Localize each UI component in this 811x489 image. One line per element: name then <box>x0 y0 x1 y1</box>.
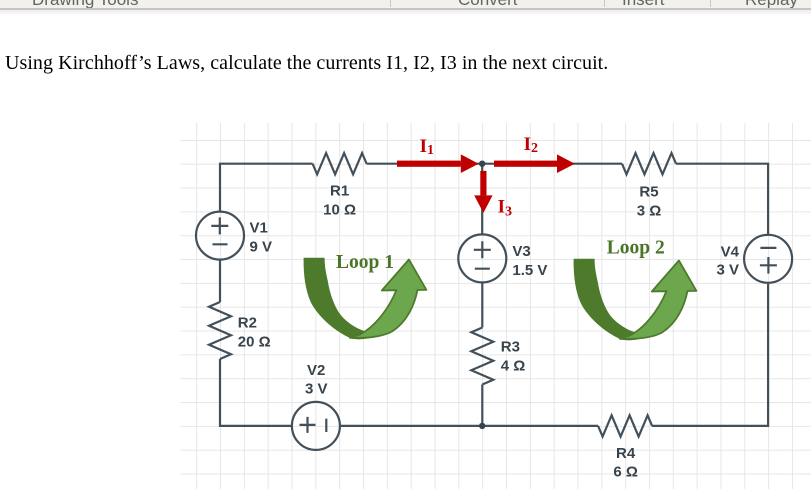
problem statement text <box>5 52 608 75</box>
svg-text:V4: V4 <box>721 244 740 261</box>
svg-text:R1: R1 <box>330 182 349 199</box>
svg-text:V1: V1 <box>250 219 268 236</box>
svg-text:10 Ω: 10 Ω <box>323 201 356 218</box>
wire R4 to V2 <box>340 425 598 427</box>
resistor R3 <box>471 328 493 385</box>
loop 1 arrow dark band <box>304 258 374 340</box>
current arrow I3 <box>474 171 492 213</box>
svg-text:R2: R2 <box>238 315 257 332</box>
svg-text:3 V: 3 V <box>305 381 328 398</box>
loop 1 arrow light band and head <box>350 260 426 338</box>
wire R3 to bottom node <box>481 385 483 426</box>
svg-text:R4: R4 <box>616 445 636 462</box>
resistor R4 <box>598 415 652 436</box>
svg-text:V2: V2 <box>307 362 325 379</box>
svg-text:3 V: 3 V <box>716 262 739 279</box>
svg-text:3 Ω: 3 Ω <box>637 202 662 219</box>
source V3 <box>458 234 506 282</box>
wire top-left: V1 top to R1 left <box>220 164 313 212</box>
wire middle node down to V3 <box>481 164 483 235</box>
svg-text:6 Ω: 6 Ω <box>613 464 638 481</box>
wire V2 to bottom-left corner up to R2 <box>220 359 292 426</box>
svg-text:4 Ω: 4 Ω <box>501 357 526 374</box>
grid canvas <box>181 123 811 489</box>
svg-text:9 V: 9 V <box>250 238 273 255</box>
svg-text:20 Ω: 20 Ω <box>238 334 271 351</box>
svg-text:1.5 V: 1.5 V <box>512 262 547 279</box>
svg-text:V3: V3 <box>512 243 530 260</box>
node junction bottom <box>479 423 485 429</box>
wire R1 to R5 through node <box>367 163 622 165</box>
loop 2 arrow light band and head <box>620 261 696 339</box>
source V2 <box>292 402 340 450</box>
svg-text:R5: R5 <box>639 184 658 201</box>
svg-text:R3: R3 <box>501 339 520 356</box>
source V4 <box>744 235 792 283</box>
current arrow I2 <box>494 154 575 173</box>
wire top-right corner down to V4 <box>676 164 768 236</box>
svg-text:Loop 1: Loop 1 <box>336 252 394 273</box>
resistor R1 <box>313 153 367 174</box>
wire V3 to R3 <box>481 283 483 328</box>
resistor R2 <box>209 302 231 359</box>
loop 2 arrow dark band <box>574 259 644 341</box>
wire V4 down to bottom-right corner to R4 <box>652 284 768 426</box>
svg-text:Loop 2: Loop 2 <box>607 238 665 259</box>
source V1 <box>196 212 244 260</box>
resistor R5 <box>622 153 676 174</box>
wire R2 to V1 <box>219 260 221 302</box>
current arrow I1 <box>397 154 479 173</box>
node junction top <box>479 161 485 167</box>
ribbon bar <box>0 0 811 8</box>
